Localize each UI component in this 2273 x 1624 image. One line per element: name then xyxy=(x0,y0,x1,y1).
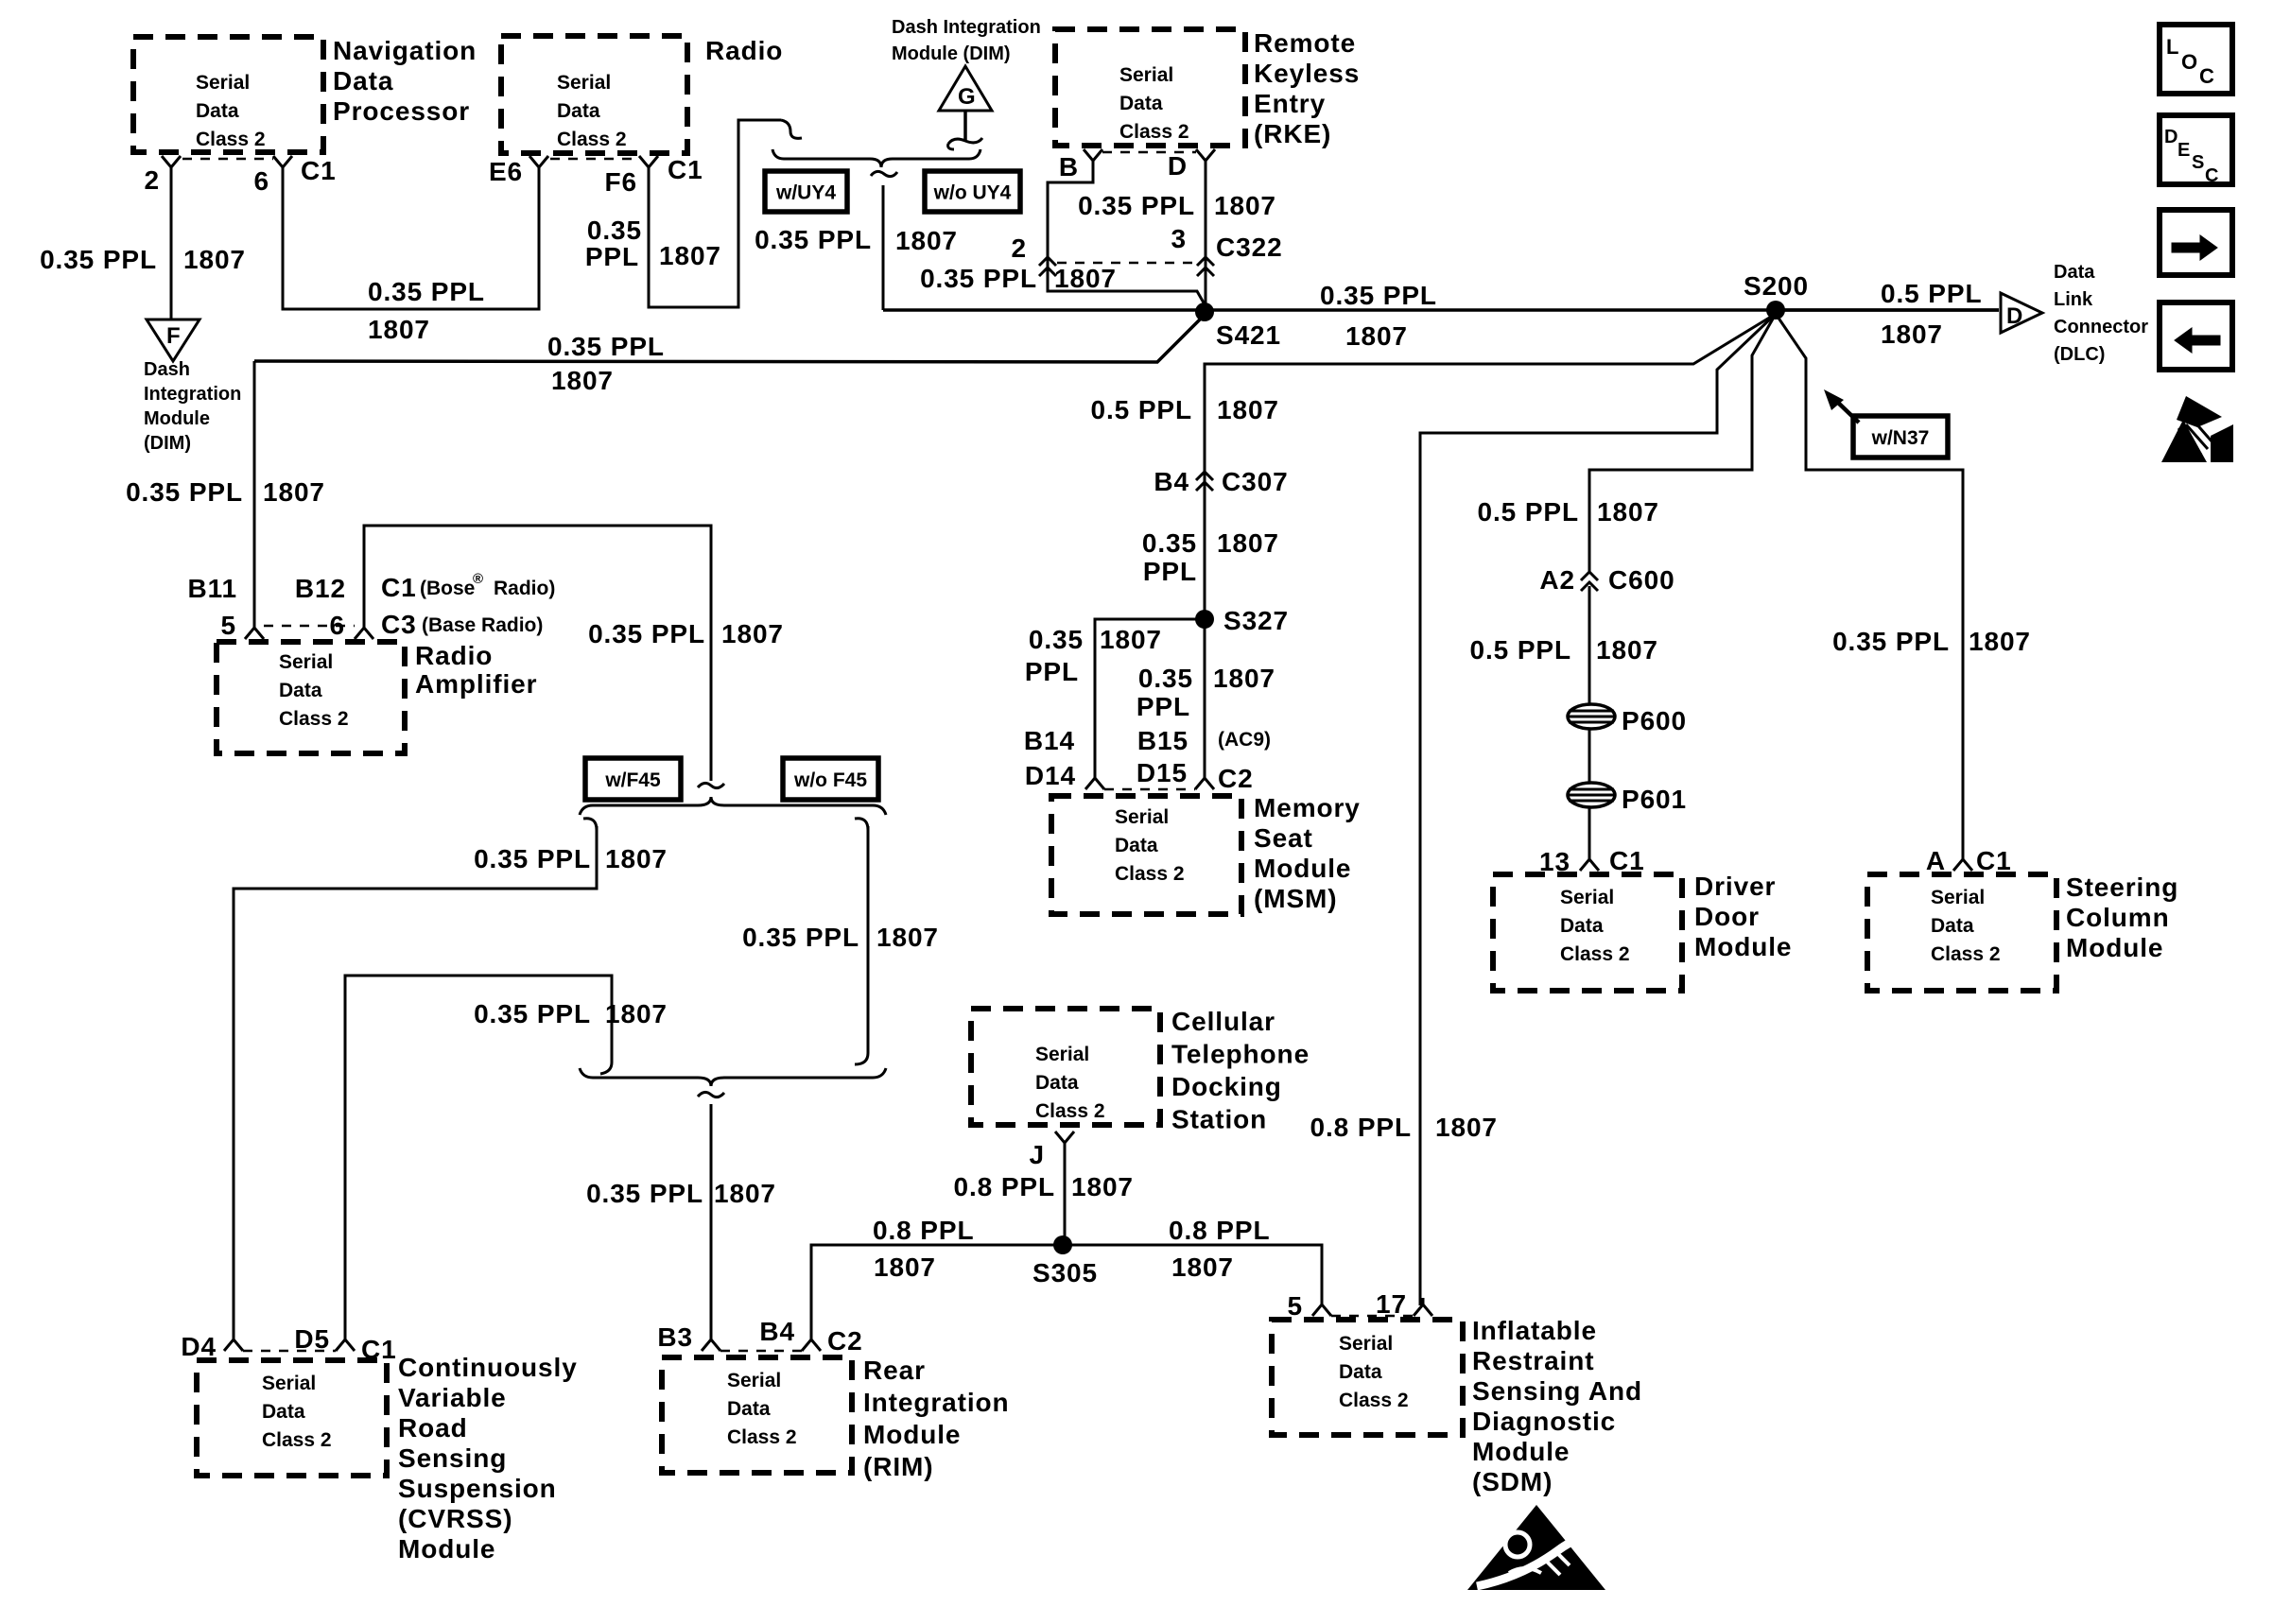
wire label 0.35 PPL (pin6-E6) xyxy=(368,277,485,306)
wire label 0.8 PPL 1807 (B4-S305) xyxy=(873,1216,974,1282)
pin 6 of Navigation C1 xyxy=(254,156,292,196)
svg-text:Class 2: Class 2 xyxy=(279,708,349,730)
option brace lower (F45 merge) xyxy=(580,1068,886,1097)
pin 13 C1 of Driver Door Module xyxy=(1539,846,1645,876)
svg-text:®: ® xyxy=(473,571,483,587)
svg-text:17: 17 xyxy=(1376,1289,1407,1319)
wire label 0.35 PPL 1807 (bus right of S421) xyxy=(1320,281,1437,351)
svg-text:Integration: Integration xyxy=(863,1388,1010,1417)
connector AC9 label xyxy=(1218,729,1271,751)
wire label 0.35 PPL 1807 (pin2 lower) xyxy=(920,264,1117,293)
module Remote Keyless Entry RKE (dashed box Serial Data Class 2) xyxy=(1055,29,1245,146)
wire label 0.35 PPL 1807 (Steering) xyxy=(1832,627,2031,656)
wire label 0.35 PPL 1807 (F45 right) xyxy=(742,923,939,952)
svg-text:Serial: Serial xyxy=(262,1373,316,1394)
wire pin6 to Radio E6 xyxy=(283,172,539,309)
svg-text:Integration: Integration xyxy=(144,384,241,405)
svg-text:w/o F45: w/o F45 xyxy=(793,769,867,791)
svg-text:Data: Data xyxy=(1035,1072,1079,1094)
svg-text:C600: C600 xyxy=(1608,565,1675,595)
svg-text:Road: Road xyxy=(398,1413,468,1443)
svg-text:Dash: Dash xyxy=(144,359,190,380)
svg-text:1807: 1807 xyxy=(876,923,939,952)
connector C1 C3 labels (Radio Amplifier) xyxy=(381,571,555,639)
svg-text:Serial: Serial xyxy=(1339,1333,1393,1355)
wire label 1807 (F6) xyxy=(659,241,721,270)
svg-text:Steering: Steering xyxy=(2066,872,2178,902)
svg-text:Serial: Serial xyxy=(279,651,333,673)
label Driver Door Module xyxy=(1694,872,1792,961)
label Continuously Variable Road Sensing Suspension (CVRSS) Module xyxy=(398,1353,578,1564)
svg-text:Suspension: Suspension xyxy=(398,1474,557,1503)
svg-text:0.35 PPL: 0.35 PPL xyxy=(1320,281,1437,310)
wire label 0.35 PPL 1807 (D5 branch) xyxy=(474,999,668,1028)
svg-text:Data: Data xyxy=(333,66,393,95)
pin 5 of SDM xyxy=(1288,1291,1331,1321)
connector C2 label (MSM) xyxy=(1218,764,1254,793)
svg-text:Class 2: Class 2 xyxy=(727,1426,797,1448)
svg-text:D: D xyxy=(1168,151,1188,181)
svg-text:Processor: Processor xyxy=(333,96,470,126)
svg-text:C2: C2 xyxy=(827,1326,863,1356)
svg-text:Serial: Serial xyxy=(1119,64,1173,86)
label Remote Keyless Entry (RKE) xyxy=(1254,28,1360,148)
svg-text:1807: 1807 xyxy=(605,844,668,873)
wire G stem with break xyxy=(948,111,982,149)
wire S200 to SDM pin17 (0.8 PPL) xyxy=(1420,314,1776,1305)
svg-text:Class 2: Class 2 xyxy=(1339,1390,1409,1411)
module RIM (dashed box Serial Data Class 2) xyxy=(662,1357,852,1473)
svg-text:Inflatable: Inflatable xyxy=(1472,1316,1597,1345)
wire label 0.35 PPL 1807 (B11) xyxy=(126,477,325,507)
svg-text:Class 2: Class 2 xyxy=(196,129,266,150)
arrow to w/N37 xyxy=(1824,389,1859,423)
svg-text:2: 2 xyxy=(1012,233,1027,263)
svg-text:B14: B14 xyxy=(1024,726,1075,755)
connector C2 label (RIM) xyxy=(827,1326,863,1356)
wire label 0.8 PPL 1807 (S305-pin5) xyxy=(1169,1216,1270,1282)
wire label 0.35 PPL 1807 (pin2) xyxy=(40,245,246,274)
svg-text:A2: A2 xyxy=(1539,565,1575,595)
wire UY4 output to bus xyxy=(882,185,885,310)
svg-text:Module: Module xyxy=(398,1534,495,1564)
svg-text:1807: 1807 xyxy=(1596,635,1658,665)
connector C600 pin A2 xyxy=(1539,565,1674,595)
svg-text:P600: P600 xyxy=(1622,706,1687,735)
svg-text:PPL: PPL xyxy=(1025,657,1079,686)
legend box right arrow xyxy=(2160,210,2232,275)
svg-text:0.35 PPL: 0.35 PPL xyxy=(742,923,859,952)
svg-text:Module: Module xyxy=(2066,933,2163,962)
label Dash Integration Module (DIM) left xyxy=(144,359,241,454)
svg-text:(CVRSS): (CVRSS) xyxy=(398,1504,512,1533)
svg-text:w/o UY4: w/o UY4 xyxy=(933,182,1012,204)
svg-text:C: C xyxy=(2199,64,2214,88)
connector face dashed line (RIM) xyxy=(720,1350,802,1353)
svg-text:B: B xyxy=(1059,152,1079,181)
svg-text:(Bose: (Bose xyxy=(420,578,475,599)
bus wire S200 to DLC xyxy=(1776,308,1999,312)
svg-text:0.35 PPL: 0.35 PPL xyxy=(368,277,485,306)
svg-text:Class 2: Class 2 xyxy=(1035,1100,1105,1122)
svg-text:(DLC): (DLC) xyxy=(2054,344,2105,365)
svg-text:C1: C1 xyxy=(1976,846,2012,875)
svg-text:Data: Data xyxy=(1119,93,1163,114)
wire label 0.35 PPL (UY4 wire) xyxy=(755,225,958,255)
svg-text:Entry: Entry xyxy=(1254,89,1326,118)
wire C600 to P600 xyxy=(1588,586,1591,704)
svg-text:P601: P601 xyxy=(1622,785,1687,814)
legend box LOC xyxy=(2160,25,2232,94)
svg-text:Data: Data xyxy=(196,100,239,122)
pass-through connector P601 xyxy=(1568,783,1687,814)
svg-text:w/UY4: w/UY4 xyxy=(775,182,836,204)
wire S327 to MSM B14 xyxy=(1095,619,1205,774)
wire F45 left-lower branch to D5 xyxy=(345,976,612,1340)
svg-text:Restraint: Restraint xyxy=(1472,1346,1594,1375)
svg-text:0.35 PPL: 0.35 PPL xyxy=(40,245,157,274)
svg-text:0.8 PPL: 0.8 PPL xyxy=(873,1216,974,1245)
svg-text:Docking: Docking xyxy=(1171,1072,1282,1101)
svg-text:S421: S421 xyxy=(1216,320,1281,350)
connector face dashed line (RKE) xyxy=(1102,151,1196,154)
svg-text:Data: Data xyxy=(1115,835,1158,856)
svg-text:Seat: Seat xyxy=(1254,823,1313,853)
label Dash Integration Module (DIM) top xyxy=(892,17,1041,64)
svg-text:3: 3 xyxy=(1171,224,1187,253)
svg-text:(RKE): (RKE) xyxy=(1254,119,1331,148)
svg-text:Navigation: Navigation xyxy=(333,36,477,65)
connector C1 label (CVRSS) xyxy=(361,1335,397,1364)
pin B12 6 of Radio Amplifier xyxy=(295,574,373,640)
svg-text:Keyless: Keyless xyxy=(1254,59,1360,88)
svg-text:0.35 PPL: 0.35 PPL xyxy=(755,225,872,254)
option box w/F45 xyxy=(585,758,681,800)
wire label 0.5 PPL 1807 (C600 lower) xyxy=(1470,635,1658,665)
svg-text:1807: 1807 xyxy=(714,1179,776,1208)
svg-text:C1: C1 xyxy=(301,156,337,185)
connector C322 dashed line and label xyxy=(1057,233,1283,263)
svg-text:1807: 1807 xyxy=(1071,1172,1134,1201)
svg-text:Module: Module xyxy=(1254,854,1351,883)
svg-text:Class 2: Class 2 xyxy=(1931,943,2001,965)
label Radio xyxy=(705,36,783,65)
svg-text:B3: B3 xyxy=(657,1322,693,1352)
svg-text:Serial: Serial xyxy=(1115,806,1169,828)
svg-text:Serial: Serial xyxy=(727,1370,781,1391)
svg-text:Radio): Radio) xyxy=(494,578,555,599)
svg-text:0.35 PPL: 0.35 PPL xyxy=(588,619,705,648)
svg-text:0.8 PPL: 0.8 PPL xyxy=(1169,1216,1270,1245)
svg-text:C307: C307 xyxy=(1222,467,1289,496)
svg-text:B12: B12 xyxy=(295,574,346,603)
svg-text:Module: Module xyxy=(1472,1437,1570,1466)
svg-text:1807: 1807 xyxy=(1214,191,1276,220)
svg-text:1807: 1807 xyxy=(605,999,668,1028)
svg-text:w/F45: w/F45 xyxy=(604,769,661,791)
wire F45 left branch to D4 xyxy=(234,819,597,1340)
svg-text:Remote: Remote xyxy=(1254,28,1356,58)
svg-text:1807: 1807 xyxy=(1054,264,1117,293)
svg-text:0.35 PPL: 0.35 PPL xyxy=(126,477,243,507)
svg-text:E: E xyxy=(2178,140,2190,161)
wire B12 C1 up to F45 split xyxy=(364,526,711,781)
module Steering Column Module (dashed box Serial Data Class 2) xyxy=(1867,874,2056,991)
option brace (UY4 split) xyxy=(772,149,980,177)
svg-text:Diagnostic: Diagnostic xyxy=(1472,1407,1616,1436)
svg-text:Column: Column xyxy=(2066,903,2170,932)
option split squiggle (F45 top) xyxy=(698,783,724,787)
label Rear Integration Module (RIM) xyxy=(863,1356,1010,1481)
svg-text:Class 2: Class 2 xyxy=(557,129,627,150)
module CVRSS (dashed box Serial Data Class 2) xyxy=(197,1360,387,1476)
svg-text:Rear: Rear xyxy=(863,1356,926,1385)
ESD sensitive device symbol xyxy=(2161,396,2233,462)
pin D5 of CVRSS C1 xyxy=(294,1324,355,1354)
svg-text:w/N37: w/N37 xyxy=(1871,427,1930,449)
svg-text:0.35: 0.35 xyxy=(1029,625,1084,654)
svg-text:Data: Data xyxy=(1931,915,1974,937)
svg-text:1807: 1807 xyxy=(1217,528,1279,558)
svg-text:D4: D4 xyxy=(181,1332,217,1361)
svg-text:D5: D5 xyxy=(294,1324,330,1354)
splice S421 xyxy=(1195,302,1281,350)
splice S327 xyxy=(1195,606,1289,635)
svg-text:B15: B15 xyxy=(1137,726,1189,755)
svg-text:1807: 1807 xyxy=(1881,320,1943,349)
svg-text:Module: Module xyxy=(863,1420,961,1449)
label Navigation Data Processor xyxy=(333,36,477,126)
connector face dashed line (Navigation) xyxy=(182,158,273,161)
svg-text:PPL: PPL xyxy=(585,242,639,271)
pin D4 of CVRSS C1 xyxy=(181,1332,243,1361)
svg-text:0.5 PPL: 0.5 PPL xyxy=(1470,635,1571,665)
svg-text:A: A xyxy=(1926,846,1946,875)
svg-text:1807: 1807 xyxy=(1171,1253,1234,1282)
wire S305 to SDM pin5 xyxy=(1063,1245,1322,1305)
svg-text:0.8 PPL: 0.8 PPL xyxy=(1310,1113,1412,1142)
pin B4 C2 of RIM xyxy=(759,1317,821,1351)
wire label 0.5 PPL 1807 (S421-C307) xyxy=(1091,395,1279,424)
svg-text:1807: 1807 xyxy=(659,241,721,270)
wire label 0.35 PPL (F6) xyxy=(585,216,642,271)
svg-text:0.5 PPL: 0.5 PPL xyxy=(1881,279,1982,308)
svg-text:Dash Integration: Dash Integration xyxy=(892,17,1041,38)
svg-text:5: 5 xyxy=(221,611,236,640)
svg-text:Data: Data xyxy=(262,1401,305,1423)
splice S200 xyxy=(1744,271,1809,320)
wire S327 to MSM B15 xyxy=(1204,619,1206,774)
bus wire S421 area xyxy=(883,308,1999,312)
wire F45 right branch xyxy=(855,819,868,1064)
option box w/UY4 xyxy=(765,171,847,212)
pin 2 of Navigation C1 xyxy=(145,156,181,195)
off-page triangle D to Data Link Connector xyxy=(2001,293,2042,333)
wire label 1807 (pin6-E6) xyxy=(368,315,430,344)
module Radio Amplifier (dashed box Serial Data Class 2) xyxy=(217,642,405,753)
wire F45 output to B3 xyxy=(710,1104,713,1340)
svg-text:Data: Data xyxy=(1339,1361,1382,1383)
option box w/o UY4 xyxy=(925,171,1020,212)
svg-text:1807: 1807 xyxy=(368,315,430,344)
off-page triangle G from DIM xyxy=(939,66,992,111)
wire S200 to MSM chain (0.35 PPL branch) xyxy=(1205,314,1776,613)
wire S200 to Steering Column (0.35 PPL) xyxy=(1776,314,1963,853)
svg-text:0.35 PPL: 0.35 PPL xyxy=(474,844,591,873)
svg-text:Station: Station xyxy=(1171,1105,1267,1134)
svg-text:Cellular: Cellular xyxy=(1171,1007,1275,1036)
legend box left arrow xyxy=(2160,302,2232,370)
svg-text:Data: Data xyxy=(1560,915,1604,937)
svg-text:0.35: 0.35 xyxy=(1138,664,1193,693)
airbag warning triangle symbol xyxy=(1467,1505,1605,1590)
svg-text:1807: 1807 xyxy=(1435,1113,1498,1142)
svg-text:1807: 1807 xyxy=(551,366,614,395)
wire RKE D to S421 xyxy=(1205,165,1207,312)
svg-text:1807: 1807 xyxy=(1969,627,2031,656)
label Cellular Telephone Docking Station xyxy=(1171,1007,1310,1134)
svg-text:Serial: Serial xyxy=(1035,1044,1089,1065)
svg-text:Continuously: Continuously xyxy=(398,1353,578,1382)
pin F6 of Radio C1 xyxy=(605,156,658,197)
wire DIM branch to S421 xyxy=(254,315,1205,362)
module SDM (dashed box Serial Data Class 2) xyxy=(1272,1320,1463,1435)
connector face dashed line (MSM) xyxy=(1104,788,1195,791)
svg-text:Telephone: Telephone xyxy=(1171,1040,1310,1069)
wire label 0.35 PPL (B14 wire) xyxy=(1025,625,1084,686)
pin 17 of SDM xyxy=(1376,1289,1432,1319)
svg-text:0.35 PPL: 0.35 PPL xyxy=(920,264,1037,293)
svg-text:0.35: 0.35 xyxy=(1142,528,1197,558)
pin D of RKE xyxy=(1168,149,1215,181)
svg-text:Door: Door xyxy=(1694,902,1760,931)
pin B11 5 of Radio Amplifier xyxy=(187,574,264,640)
svg-text:Radio: Radio xyxy=(705,36,783,65)
wire label 0.8 PPL 1807 (pin17) xyxy=(1310,1113,1498,1142)
svg-text:Sensing: Sensing xyxy=(398,1443,507,1473)
wire label 0.8 PPL 1807 (J) xyxy=(954,1172,1134,1201)
svg-text:C1: C1 xyxy=(668,155,703,184)
option box w/N37 xyxy=(1853,416,1948,458)
label Memory Seat Module (MSM) xyxy=(1254,793,1361,913)
svg-text:6: 6 xyxy=(254,166,269,196)
wire label 0.35 PPL 1807 (F45 left) xyxy=(474,844,668,873)
wire F6 to option split xyxy=(649,120,802,307)
svg-text:Link: Link xyxy=(2054,289,2093,310)
svg-text:(Base Radio): (Base Radio) xyxy=(422,614,543,636)
pin A C1 of Steering Column Module xyxy=(1926,846,2012,875)
wire DIM branch down to B11 xyxy=(253,361,256,628)
svg-text:Serial: Serial xyxy=(1560,887,1614,908)
module Navigation Data Processor (dashed box Serial Data Class 2) xyxy=(133,37,323,152)
svg-text:C2: C2 xyxy=(1218,764,1254,793)
svg-text:B11: B11 xyxy=(187,574,237,603)
svg-text:E6: E6 xyxy=(489,157,523,186)
svg-text:Serial: Serial xyxy=(1931,887,1985,908)
svg-text:0.35 PPL: 0.35 PPL xyxy=(1078,191,1195,220)
connector C322 pin 3 xyxy=(1171,224,1214,276)
svg-text:(RIM): (RIM) xyxy=(863,1452,933,1481)
splice S305 xyxy=(1032,1235,1098,1287)
connector C322 pin 2 xyxy=(1012,233,1056,276)
svg-text:Amplifier: Amplifier xyxy=(415,669,537,699)
svg-text:Serial: Serial xyxy=(557,72,611,94)
svg-text:S200: S200 xyxy=(1744,271,1809,301)
wire pin2 to F triangle xyxy=(170,172,173,320)
legend box DESC xyxy=(2160,115,2232,186)
svg-text:C1: C1 xyxy=(1609,846,1645,875)
pin B of RKE xyxy=(1059,149,1102,181)
svg-text:1807: 1807 xyxy=(1345,321,1408,351)
svg-text:Data: Data xyxy=(557,100,600,122)
pin E6 of Radio C1 xyxy=(489,156,548,186)
svg-text:F6: F6 xyxy=(605,167,637,197)
connector C307 pin B4 xyxy=(1154,467,1288,496)
svg-text:Data: Data xyxy=(279,680,322,701)
svg-text:C322: C322 xyxy=(1216,233,1283,262)
wire label 1807 (B14 wire) xyxy=(1100,625,1162,654)
wire J to S305 xyxy=(1064,1148,1067,1245)
svg-text:PPL: PPL xyxy=(1136,692,1190,721)
svg-text:1807: 1807 xyxy=(1217,395,1279,424)
svg-text:Class 2: Class 2 xyxy=(1115,863,1185,885)
wire label 0.35 PPL 1807 (F45 feed) xyxy=(588,619,784,648)
svg-text:5: 5 xyxy=(1288,1291,1303,1321)
label Inflatable Restraint Sensing And Diagnostic Module (SDM) xyxy=(1472,1316,1642,1496)
svg-text:B4: B4 xyxy=(759,1317,795,1346)
pin B15 D15 of MSM xyxy=(1136,726,1214,789)
svg-text:F: F xyxy=(166,323,181,349)
svg-text:S327: S327 xyxy=(1223,606,1289,635)
svg-text:Radio: Radio xyxy=(415,641,493,670)
svg-text:L: L xyxy=(2166,35,2178,59)
svg-text:0.8 PPL: 0.8 PPL xyxy=(954,1172,1055,1201)
svg-text:Class 2: Class 2 xyxy=(262,1429,332,1451)
svg-text:Driver: Driver xyxy=(1694,872,1776,901)
wire label 0.35 PPL 1807 (B-D) xyxy=(1078,191,1276,220)
svg-text:C1: C1 xyxy=(381,573,417,602)
wire RKE B to pin2 C322 xyxy=(1048,165,1205,304)
option brace upper (F45 split) xyxy=(580,797,886,815)
wire P601 to pin13 xyxy=(1588,807,1591,853)
svg-text:(MSM): (MSM) xyxy=(1254,884,1337,913)
wire P600 to P601 xyxy=(1588,729,1591,783)
pin J of Cellular Telephone Docking Station xyxy=(1030,1132,1074,1169)
svg-text:B4: B4 xyxy=(1154,467,1189,496)
svg-text:S: S xyxy=(2192,152,2204,173)
svg-text:Serial: Serial xyxy=(196,72,250,94)
label Data Link Connector (DLC) xyxy=(2054,262,2148,365)
connector face dashed line (Radio) xyxy=(550,158,639,161)
svg-text:Data: Data xyxy=(2054,262,2095,283)
svg-text:1807: 1807 xyxy=(183,245,246,274)
connector face dashed line (SDM) xyxy=(1331,1315,1414,1318)
off-page triangle F to DIM xyxy=(147,320,200,361)
svg-text:0.35 PPL: 0.35 PPL xyxy=(474,999,591,1028)
svg-text:0.5 PPL: 0.5 PPL xyxy=(1091,395,1192,424)
svg-text:0.35: 0.35 xyxy=(587,216,642,245)
connector face dashed line (Radio Amplifier) xyxy=(264,625,355,628)
svg-text:1807: 1807 xyxy=(1213,664,1275,693)
svg-text:2: 2 xyxy=(145,165,160,195)
pin B3 of RIM xyxy=(657,1322,720,1352)
svg-text:S305: S305 xyxy=(1032,1258,1098,1287)
wire B4 to S305 xyxy=(811,1245,1063,1340)
svg-text:1807: 1807 xyxy=(1597,497,1659,527)
svg-text:Sensing And: Sensing And xyxy=(1472,1376,1642,1406)
svg-text:0.35 PPL: 0.35 PPL xyxy=(586,1179,703,1208)
connector C1 label (Navigation) xyxy=(301,156,337,185)
